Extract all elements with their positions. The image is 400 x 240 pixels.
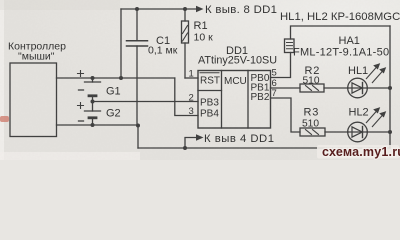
svg-text:схема.my1.ru: схема.my1.ru <box>322 145 400 159</box>
